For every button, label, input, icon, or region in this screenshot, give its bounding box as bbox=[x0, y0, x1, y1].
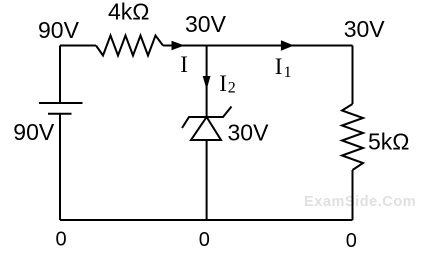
svg-text:0: 0 bbox=[199, 229, 210, 251]
svg-text:5kΩ: 5kΩ bbox=[368, 129, 410, 155]
battery V1 short plate bbox=[48, 113, 72, 115]
svg-text:I1: I1 bbox=[275, 54, 292, 81]
current arrow I2 (downward) bbox=[203, 76, 211, 90]
svg-text:0: 0 bbox=[346, 230, 357, 252]
wire top-right corner down to R2 bbox=[352, 46, 354, 105]
resistor R1 4kΩ (horizontal zigzag) bbox=[96, 36, 163, 56]
current arrow I1 (rightward) bbox=[281, 40, 294, 51]
current arrow I (rightward) bbox=[172, 41, 185, 51]
wire zener anode to bottom rail bbox=[206, 140, 208, 220]
svg-text:90V: 90V bbox=[38, 17, 80, 43]
wire R2 down to bottom rail bbox=[352, 170, 354, 220]
wire node A down to zener cathode bbox=[206, 46, 208, 118]
svg-text:30V: 30V bbox=[185, 11, 227, 37]
svg-text:I: I bbox=[180, 52, 188, 77]
zener diode D1 triangle (anode) bbox=[191, 117, 221, 140]
bottom ground rail wire bbox=[60, 219, 353, 221]
resistor R2 5kΩ (vertical zigzag) bbox=[342, 104, 363, 170]
svg-text:I2: I2 bbox=[219, 71, 235, 97]
svg-text:30V: 30V bbox=[344, 16, 386, 42]
battery V1 long plate bbox=[39, 102, 83, 104]
svg-text:ExamSide.Com: ExamSide.Com bbox=[304, 194, 416, 210]
wire R1 to node A bbox=[163, 45, 207, 47]
svg-text:90V: 90V bbox=[13, 119, 55, 145]
wire battery - down to bottom rail bbox=[59, 114, 61, 220]
zener diode D1 cathode bar with bent ends bbox=[182, 107, 232, 129]
svg-text:0: 0 bbox=[56, 229, 67, 251]
wire top-left horizontal segment (battery + to R1) bbox=[60, 45, 96, 47]
wire left rail battery + up to top bbox=[59, 46, 61, 104]
svg-text:4kΩ: 4kΩ bbox=[108, 0, 150, 25]
wire node A to top-right corner bbox=[207, 45, 353, 47]
svg-text:30V: 30V bbox=[228, 119, 270, 145]
